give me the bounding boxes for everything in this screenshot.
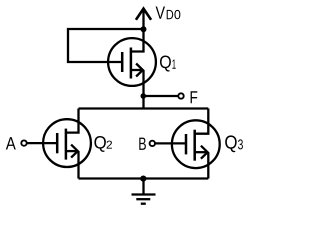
label Q1	[160, 55, 176, 71]
wire input A	[27, 142, 58, 144]
transistor Q2	[43, 109, 91, 179]
wire node F down to output rail	[142, 96, 144, 109]
terminal F open circle	[178, 93, 183, 98]
label F	[191, 91, 198, 103]
node F junction dot	[141, 93, 147, 99]
label Q3	[225, 135, 243, 152]
label Q2	[94, 136, 112, 152]
label B	[139, 138, 146, 150]
ground symbol	[132, 179, 156, 204]
power VDD arrow	[136, 9, 151, 29]
label VD0	[156, 6, 181, 19]
terminal B open circle	[150, 141, 155, 146]
node VDD junction dot	[141, 26, 147, 32]
transistor Q1	[108, 29, 156, 96]
transistor Q3	[172, 109, 220, 179]
node ground junction dot	[140, 176, 146, 182]
label A	[6, 137, 16, 149]
wire output rail (top of rectangle)	[79, 107, 209, 109]
wire from node F junction to terminal	[144, 95, 179, 97]
wire gate-to-drain loop of Q1	[68, 29, 144, 62]
terminal A open circle	[21, 140, 26, 145]
wire ground rail (bottom of rectangle)	[79, 177, 209, 179]
wire input B	[155, 142, 186, 144]
